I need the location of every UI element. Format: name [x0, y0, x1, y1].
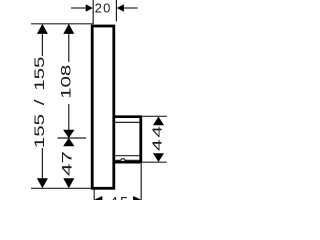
dim 44: bottom extension line — [142, 161, 167, 163]
dim 108: up arrow — [63, 24, 74, 34]
handle inner chamfer line top — [115, 121, 139, 123]
handle right edge — [139, 115, 142, 163]
dim 108: down arrow (hourglass top) — [63, 130, 74, 138]
handle top edge — [114, 115, 141, 118]
svg-text:44: 44 — [150, 124, 165, 151]
dim 44: down arrow — [153, 153, 164, 162]
svg-text:45: 45 — [110, 195, 130, 200]
dim 45 bottom: right arrow — [133, 196, 141, 203]
dim 108: line lower segment — [68, 104, 70, 130]
extension line bottom-left (plate bottom) — [31, 187, 92, 189]
dim 47: down arrow — [63, 178, 74, 188]
dim 108: line upper segment — [68, 25, 70, 63]
dim 155/155: up arrow — [37, 24, 48, 34]
dim 20: right arrow with tail — [123, 7, 138, 9]
extension line valve axis (for 108/47) — [58, 137, 87, 139]
svg-text:47: 47 — [59, 151, 74, 176]
plate (escutcheon side view) — [92, 26, 114, 188]
extension line top-left (plate top) — [31, 23, 94, 25]
svg-text:20: 20 — [95, 1, 112, 16]
dim 155/155: line lower segment — [41, 148, 43, 179]
svg-text:108: 108 — [58, 65, 74, 99]
dim 45 bottom: right extension line — [140, 164, 142, 200]
handle inner chamfer line bottom — [115, 155, 139, 157]
handle bottom edge — [114, 161, 141, 164]
handle safety-stop button profile — [115, 159, 139, 161]
dim 20: right extension line — [115, 0, 117, 22]
dim 20: left arrow with tail — [71, 7, 87, 9]
dim 45 bottom: left extension line — [93, 190, 95, 201]
dim 155/155: down arrow — [37, 178, 48, 188]
dim 44: up arrow — [153, 117, 164, 126]
dim 20: left extension line — [92, 0, 94, 24]
dim 155/155: line upper segment — [41, 25, 43, 57]
dim 47: up arrow (hourglass bottom) — [63, 138, 74, 146]
dim 45 bottom: left arrow — [95, 196, 103, 203]
svg-text:155 / 155: 155 / 155 — [32, 57, 48, 149]
dim 44: top extension line — [142, 115, 167, 117]
